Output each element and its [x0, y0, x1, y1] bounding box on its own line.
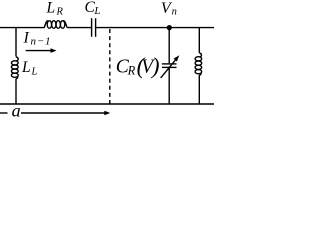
- wire top bus middle segment: [67, 27, 91, 29]
- wire right shunt lower: [198, 75, 200, 104]
- label a: [12, 101, 21, 121]
- node V_n dot: [167, 25, 172, 30]
- varactor arrow: [161, 55, 180, 78]
- label L_L: [21, 59, 38, 78]
- wire left shunt upper: [15, 28, 17, 57]
- svg-text:I: I: [23, 30, 30, 47]
- dashed cell boundary: [109, 29, 111, 106]
- wire left shunt lower: [15, 79, 17, 104]
- current arrow: [26, 48, 57, 53]
- inductor L_L coil: [11, 57, 18, 79]
- svg-text:n: n: [172, 6, 177, 17]
- dimension arrow right segment: [21, 111, 110, 116]
- svg-text:): ): [150, 53, 160, 78]
- svg-text:R: R: [127, 64, 136, 78]
- svg-text:a: a: [12, 101, 21, 120]
- inductor L_R coil: [44, 21, 67, 29]
- dimension line left segment: [0, 112, 8, 114]
- varactor C_R(V) plates: [162, 64, 177, 68]
- capacitor C_L: [92, 18, 96, 37]
- wire middle shunt upper: [168, 28, 170, 64]
- inductor right coil: [195, 53, 202, 76]
- label L_R: [46, 0, 64, 18]
- wire right shunt upper: [198, 28, 200, 53]
- label C_L: [85, 0, 101, 17]
- svg-text:R: R: [56, 7, 64, 18]
- current label I_n-1: [23, 30, 52, 48]
- wire bottom bus: [0, 103, 214, 105]
- wire middle shunt lower: [168, 67, 170, 104]
- svg-text:n−1: n−1: [31, 36, 52, 48]
- svg-text:L: L: [46, 0, 56, 17]
- wire top bus left segment: [0, 27, 45, 29]
- svg-text:L: L: [31, 67, 38, 78]
- svg-text:L: L: [93, 5, 100, 17]
- label C_R(V): [116, 53, 160, 78]
- svg-text:L: L: [21, 59, 31, 76]
- label V_n: [161, 0, 177, 17]
- wire top bus right segment: [96, 27, 214, 29]
